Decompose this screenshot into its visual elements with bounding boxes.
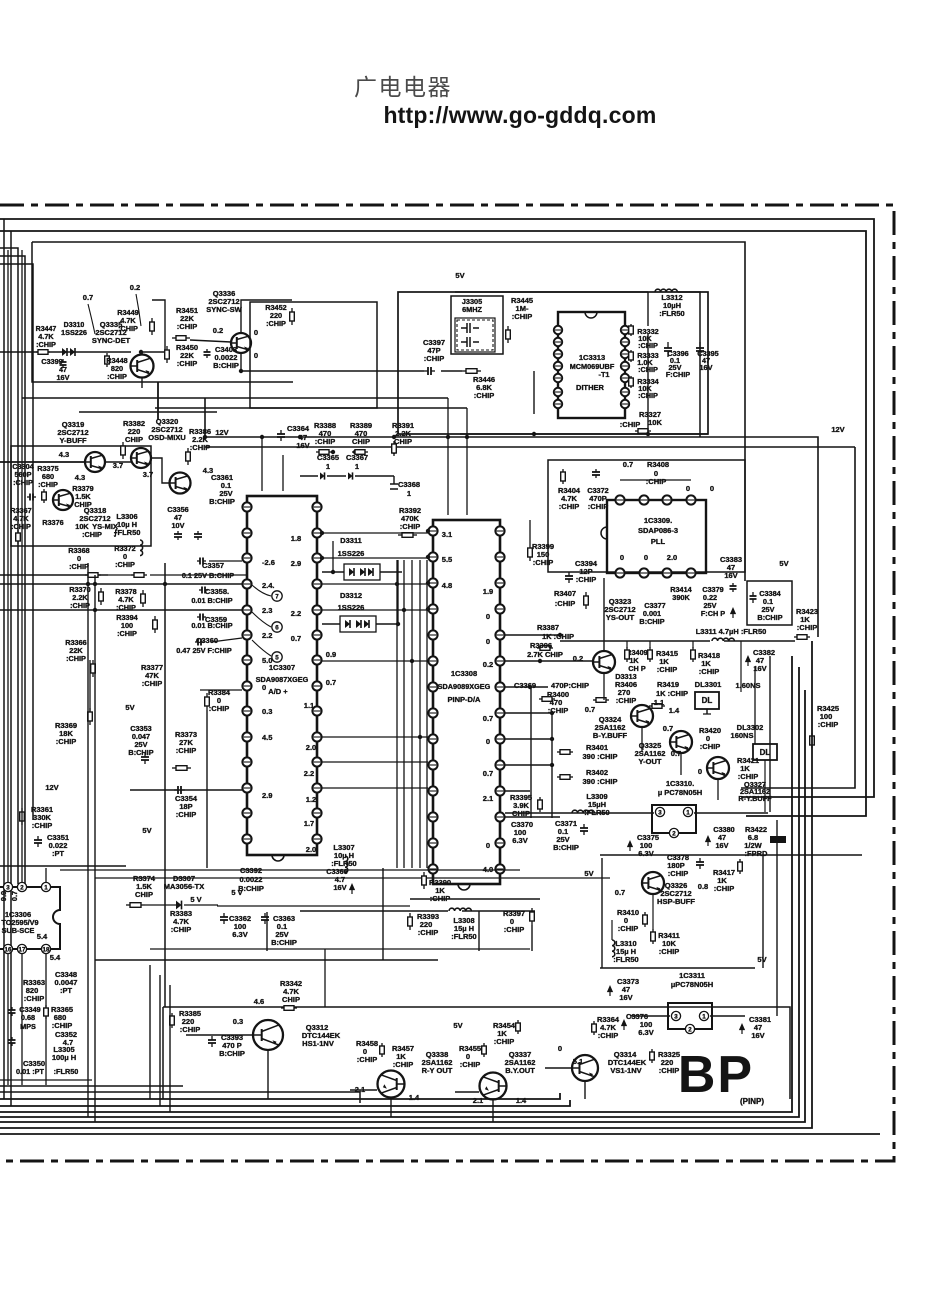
regulator IC3310 box	[652, 805, 696, 833]
capacitor C3350	[11, 1007, 13, 1010]
svg-text:1SS226: 1SS226	[338, 603, 365, 612]
svg-text:390 :CHIP: 390 :CHIP	[582, 777, 617, 786]
svg-text:0.2: 0.2	[213, 326, 223, 335]
wire ic3311 row	[630, 1015, 670, 1017]
svg-text::CHIP: :CHIP	[11, 522, 31, 531]
resistor R3401 body	[557, 751, 560, 753]
transistor Q3314	[572, 1055, 598, 1081]
wire long row 408	[155, 407, 467, 409]
svg-text:µPC78N05H: µPC78N05H	[671, 980, 713, 989]
svg-text:0: 0	[254, 351, 258, 360]
junction dots rail	[260, 435, 264, 439]
wire q3319 block row	[79, 411, 217, 413]
wire cap row	[300, 475, 318, 477]
capacitor C3304	[27, 496, 30, 498]
svg-text:0.7: 0.7	[83, 293, 93, 302]
wire L3311 rail	[560, 640, 710, 642]
svg-text:B.Y.OUT: B.Y.OUT	[505, 1066, 535, 1075]
svg-text::CHIP: :CHIP	[559, 502, 579, 511]
transistor Q3320 circle	[131, 448, 151, 468]
wire q3335 collector	[142, 300, 165, 354]
wire mid vertical x207	[206, 710, 208, 868]
svg-text:0.68: 0.68	[21, 1013, 35, 1022]
svg-text:9.9: 9.9	[0, 891, 8, 901]
wire bottom bus 7	[0, 1133, 880, 1135]
inductor L3308	[449, 908, 471, 911]
svg-text:2.3: 2.3	[262, 606, 272, 615]
wire long row 398	[22, 397, 448, 399]
svg-text:SDAP086-3: SDAP086-3	[638, 526, 678, 535]
svg-text:VS1-1NV: VS1-1NV	[610, 1066, 641, 1075]
svg-text:0.1 25V B:CHIP: 0.1 25V B:CHIP	[182, 571, 234, 580]
svg-text::CHIP: :CHIP	[797, 623, 817, 632]
svg-text:5.4: 5.4	[50, 953, 61, 962]
svg-text:2.2: 2.2	[262, 631, 272, 640]
wire left bundle v2	[10, 231, 12, 1106]
svg-text:0.7: 0.7	[483, 714, 493, 723]
svg-text:A/D +: A/D +	[268, 687, 288, 696]
svg-text:D3311: D3311	[340, 536, 362, 545]
svg-text:5 V: 5 V	[190, 895, 201, 904]
svg-text:C3360: C3360	[196, 636, 218, 645]
wire q3320 q3321	[151, 458, 169, 483]
resistor R3384 body	[206, 693, 208, 697]
wire mid vertical b	[94, 575, 96, 1122]
svg-text:-2.6: -2.6	[262, 558, 275, 567]
svg-text::CHIP: :CHIP	[659, 1066, 679, 1075]
svg-text:0: 0	[710, 484, 714, 493]
diode D3310	[62, 348, 67, 356]
svg-text:0.7: 0.7	[483, 769, 493, 778]
resistor R3382 body	[122, 442, 124, 446]
wire right vertical dl	[769, 656, 771, 812]
resistor R3410 body	[644, 912, 646, 915]
svg-text::CHIP: :CHIP	[38, 480, 58, 489]
svg-text::FLR50: :FLR50	[659, 309, 684, 318]
svg-text:0.0022: 0.0022	[240, 875, 263, 884]
wire pll outline	[548, 460, 745, 572]
svg-text:PINP-D/A: PINP-D/A	[448, 695, 482, 704]
resistor R3334	[630, 376, 632, 378]
svg-text:2: 2	[688, 1026, 692, 1033]
svg-text:1C3313: 1C3313	[579, 353, 605, 362]
svg-text::CHIP: :CHIP	[56, 737, 76, 746]
svg-text:3.1: 3.1	[442, 530, 452, 539]
svg-text:16V: 16V	[751, 1031, 764, 1040]
svg-text:100µ H: 100µ H	[52, 1053, 76, 1062]
IC3306 bottom pins	[3, 944, 12, 953]
svg-text:6MHZ: 6MHZ	[462, 305, 482, 314]
resistor R3369 body	[89, 708, 91, 712]
svg-text:16V: 16V	[296, 441, 309, 450]
svg-text:1: 1	[44, 884, 48, 891]
svg-text:HS1-1NV: HS1-1NV	[302, 1039, 334, 1048]
wire right vertical long	[741, 447, 855, 788]
wire left bundle v3	[0, 248, 18, 884]
resistor R3455 body	[483, 1043, 485, 1046]
wire hsp verticals	[762, 855, 764, 968]
svg-text:1: 1	[686, 809, 690, 816]
wire q3336 emitter row	[241, 370, 424, 372]
capacitor C3351	[37, 836, 39, 840]
resistor R3407 body	[585, 592, 587, 596]
transistor Q3323	[593, 651, 615, 673]
resistor R3378 body	[142, 590, 144, 594]
svg-text:5V: 5V	[125, 703, 134, 712]
svg-text::CHIP: :CHIP	[177, 322, 197, 331]
svg-text::CHIP: :CHIP	[69, 562, 89, 571]
resistor R3423 body	[794, 636, 797, 638]
svg-text::CHIP: :CHIP	[494, 1037, 514, 1046]
wire r3369 col	[89, 660, 91, 712]
svg-text:1.1: 1.1	[654, 698, 664, 707]
svg-text:0: 0	[486, 841, 490, 850]
capacitor C3349 body	[11, 1037, 13, 1040]
svg-text:2.7K CHIP: 2.7K CHIP	[527, 650, 563, 659]
wire 5V row hsp	[600, 967, 755, 969]
resistor R3332	[630, 324, 632, 326]
resistor R3415 body	[649, 647, 651, 650]
capacitor C3399	[62, 359, 64, 362]
svg-text:0.7: 0.7	[671, 749, 681, 758]
svg-text::CHIP: :CHIP	[512, 312, 532, 321]
resistor R3390 body	[423, 872, 425, 876]
svg-text:2.2: 2.2	[304, 769, 314, 778]
capacitor C3357	[197, 560, 200, 562]
svg-text:4.6: 4.6	[254, 997, 264, 1006]
wire left input luma	[0, 461, 84, 463]
svg-text::CHIP: :CHIP	[474, 391, 494, 400]
crystal symbol a	[461, 323, 479, 333]
svg-text:B:CHIP: B:CHIP	[128, 748, 153, 757]
svg-text:R3402: R3402	[586, 768, 608, 777]
wire right cluster verticals	[626, 641, 628, 648]
svg-text:0.3: 0.3	[233, 1017, 243, 1026]
inductor L3309	[572, 810, 594, 813]
op-amp U IC3307 body	[247, 496, 317, 855]
svg-text:1C3311: 1C3311	[679, 971, 705, 980]
svg-text:R3387: R3387	[537, 623, 559, 632]
resistor R3364 body	[593, 1021, 595, 1024]
resistor R3375	[43, 489, 45, 492]
svg-text:1.4: 1.4	[516, 1096, 527, 1105]
wire L3312 right	[678, 292, 700, 437]
svg-text:0.8: 0.8	[698, 882, 708, 891]
capacitor C3382	[746, 657, 750, 667]
capacitor C3354	[174, 789, 178, 791]
svg-text:1.60NS: 1.60NS	[735, 681, 760, 690]
wire r3384 box	[200, 689, 242, 691]
svg-text:17: 17	[19, 946, 26, 953]
capacitor C3395	[699, 342, 701, 348]
resistor R3449	[151, 318, 153, 322]
svg-text:B:CHIP: B:CHIP	[271, 938, 297, 947]
svg-text::CHIP: :CHIP	[393, 1060, 413, 1069]
svg-text:1.4: 1.4	[669, 706, 680, 715]
svg-text:2.1: 2.1	[473, 1096, 483, 1105]
svg-text:16V: 16V	[57, 373, 70, 382]
svg-text:CHIP: CHIP	[74, 500, 92, 509]
wire bottom corner stack b	[159, 975, 161, 1106]
resistor R3399 body	[529, 544, 531, 548]
wire q3323 collector	[603, 578, 605, 651]
svg-text:0: 0	[486, 637, 490, 646]
svg-text:5V: 5V	[757, 955, 766, 964]
op-amp U IC3308 body	[433, 520, 500, 884]
svg-text:MA3056-TX: MA3056-TX	[164, 882, 204, 891]
wire l3308 row	[300, 910, 448, 912]
capacitor C3368 mark	[390, 476, 398, 489]
IC3310 pin2	[669, 828, 678, 837]
wire q3335 emitter gnd	[141, 377, 143, 388]
svg-text::CHIP: :CHIP	[52, 1021, 72, 1030]
transistor Q3318	[53, 490, 73, 510]
svg-text::CHIP: :CHIP	[699, 667, 719, 676]
transistor Q3327	[707, 757, 729, 779]
svg-text:0: 0	[686, 484, 690, 493]
resistor R3389 body	[352, 451, 355, 453]
wire mid vertical a	[87, 563, 89, 1117]
capacitor C3363	[264, 913, 266, 917]
wire dither inner col	[533, 371, 535, 414]
svg-text:1: 1	[702, 1013, 706, 1020]
resistor R3361 body	[21, 808, 23, 812]
resistor R3395 body	[539, 797, 541, 800]
svg-text::CHIP: :CHIP	[13, 478, 33, 487]
resistor R3454 body	[517, 1020, 519, 1023]
wire ic3308 right rows	[505, 634, 560, 636]
svg-text:390 :CHIP: 390 :CHIP	[582, 752, 617, 761]
svg-text:1.8: 1.8	[291, 534, 301, 543]
resistor R3422 body	[770, 836, 786, 843]
svg-text:0: 0	[644, 553, 648, 562]
wire base q3336	[190, 340, 231, 342]
wire ic3306 pin cols up	[7, 250, 9, 882]
svg-text::CHIP: :CHIP	[714, 884, 734, 893]
capacitor C3360	[195, 641, 198, 643]
regulator IC3311 box	[668, 1003, 712, 1029]
svg-text:R-Y.BUFF: R-Y.BUFF	[738, 794, 772, 803]
svg-text:0.7: 0.7	[10, 891, 19, 901]
svg-text::CHIP: :CHIP	[115, 560, 135, 569]
svg-text:1: 1	[326, 462, 330, 471]
svg-text:http://www.go-gddq.com: http://www.go-gddq.com	[383, 102, 656, 128]
resistor R3368 body	[85, 574, 88, 576]
diode C3365 mark	[320, 472, 325, 479]
svg-text:16: 16	[5, 946, 12, 953]
svg-text:0.7: 0.7	[585, 705, 595, 714]
wire c3370 drop	[530, 687, 532, 818]
capacitor C3378	[699, 858, 701, 862]
op-amp U IC3313 body	[558, 312, 625, 418]
wire ybuff block box	[11, 446, 151, 546]
resistor R3409 body	[626, 647, 628, 650]
wire rows under ic	[0, 865, 126, 867]
resistor R3419 body	[649, 705, 652, 707]
svg-text:5.5: 5.5	[442, 555, 452, 564]
wire sync block box right	[250, 302, 377, 408]
svg-text::CHIP: :CHIP	[24, 994, 44, 1003]
crystal J3305 outer box	[451, 296, 503, 354]
svg-text:16V: 16V	[716, 841, 729, 850]
svg-text::CHIP: :CHIP	[171, 925, 191, 934]
IC3306 top pins	[3, 882, 12, 891]
svg-text::CHIP: :CHIP	[82, 530, 102, 539]
capacitor C3359	[197, 616, 200, 618]
wire dither bottom	[460, 433, 708, 435]
resistor R3391 body	[393, 441, 395, 444]
capacitor C3356b	[197, 531, 199, 534]
capacitor C3371	[583, 824, 585, 828]
wire q3336 emitter	[240, 353, 242, 371]
op-amp U IC3309 body	[607, 500, 706, 573]
capacitor C3366	[350, 885, 354, 895]
svg-text:CHIP: CHIP	[282, 995, 300, 1004]
IC3313 pins left	[554, 326, 562, 334]
IC3307 pins right	[312, 502, 321, 511]
svg-text:⨍FLR50: ⨍FLR50	[114, 528, 141, 537]
capacitor C3383 body	[732, 583, 734, 586]
svg-text:B:CHIP: B:CHIP	[213, 361, 239, 370]
svg-text:2.2: 2.2	[291, 609, 301, 618]
svg-text::CHIP: :CHIP	[66, 654, 86, 663]
svg-text:2.4.: 2.4.	[262, 581, 275, 590]
svg-text:5.4: 5.4	[37, 932, 48, 941]
resistor R3450	[166, 346, 168, 350]
svg-text::CHIP: :CHIP	[107, 372, 127, 381]
svg-text:Y-OUT: Y-OUT	[639, 757, 662, 766]
capacitor C3396	[667, 342, 669, 348]
svg-text:0.2: 0.2	[130, 283, 140, 292]
wire bottom corner stack c	[169, 985, 171, 1112]
svg-text:1.1: 1.1	[304, 701, 314, 710]
svg-text:C3357: C3357	[202, 561, 224, 570]
svg-text:1.7: 1.7	[304, 819, 314, 828]
capacitor C3403	[206, 349, 208, 352]
svg-text:1: 1	[355, 462, 359, 471]
svg-text:1C3308: 1C3308	[451, 669, 477, 678]
svg-text:6.3V: 6.3V	[232, 930, 247, 939]
capacitor C3353	[144, 753, 146, 757]
svg-text:0.01 B:CHIP: 0.01 B:CHIP	[191, 596, 232, 605]
wire row 575	[108, 574, 134, 576]
wire bottom bus 4	[0, 667, 799, 1117]
svg-text:DL: DL	[760, 748, 771, 757]
resistor R3367	[17, 530, 19, 533]
resistor R3333	[630, 350, 632, 352]
svg-text:C3369: C3369	[514, 681, 536, 690]
svg-text:DITHER: DITHER	[576, 383, 605, 392]
junction dots between ics	[395, 582, 399, 586]
svg-text::CHIP: :CHIP	[460, 1060, 480, 1069]
svg-text:0: 0	[486, 612, 490, 621]
IC3308 pins left	[428, 526, 437, 535]
svg-text::CHIP: :CHIP	[142, 679, 162, 688]
svg-text::CHIP: :CHIP	[504, 925, 524, 934]
svg-text:5V: 5V	[584, 869, 593, 878]
wire bottom bus 5	[0, 690, 805, 1122]
wire bottom bus 2	[0, 1100, 570, 1106]
svg-text:0: 0	[486, 737, 490, 746]
svg-text:12V: 12V	[831, 425, 844, 434]
svg-text:6.3V: 6.3V	[638, 849, 653, 858]
svg-text:470P:CHIP: 470P:CHIP	[551, 681, 589, 690]
callout 6	[272, 622, 282, 632]
wire dither 5V rail	[455, 291, 648, 293]
svg-text:Y-BUFF: Y-BUFF	[59, 436, 87, 445]
svg-text:0.3: 0.3	[262, 707, 272, 716]
svg-text::CHIP: :CHIP	[646, 477, 666, 486]
svg-text::CHIP: :CHIP	[576, 575, 596, 584]
wire l3308 drop	[478, 911, 480, 951]
svg-text::FLR50: :FLR50	[54, 1067, 79, 1076]
svg-text::FLR50: :FLR50	[451, 932, 476, 941]
wire bottom corner stack a	[149, 965, 151, 1099]
svg-text:C3399: C3399	[41, 357, 63, 366]
resistor R3445	[507, 326, 509, 330]
wire row 899	[410, 898, 540, 900]
svg-text:2: 2	[20, 884, 24, 891]
svg-text:C3364: C3364	[287, 424, 310, 433]
resistor R3411 body	[652, 929, 654, 932]
wire c3357 rows	[209, 560, 242, 562]
wire sync block box left	[32, 242, 293, 382]
wire left bundle v4	[0, 256, 25, 884]
transistor Q3337	[480, 1073, 507, 1100]
svg-text:6: 6	[275, 624, 279, 631]
resistor R3404 body	[562, 469, 564, 472]
svg-text:-T1: -T1	[599, 370, 610, 379]
svg-text:3.7: 3.7	[143, 470, 153, 479]
resistor R3397 body	[531, 908, 533, 912]
capacitor C3376	[622, 1021, 626, 1031]
op-amp U IC3306 body	[0, 887, 60, 949]
resistor R3366 body	[92, 660, 94, 664]
diode D3307	[176, 901, 182, 910]
resistor C3369 body	[593, 699, 596, 701]
svg-text:SYNC-SW: SYNC-SW	[206, 305, 242, 314]
svg-text:0.01 B:CHIP: 0.01 B:CHIP	[191, 621, 232, 630]
IC3309 bottom pins	[615, 568, 624, 577]
svg-text:16V: 16V	[619, 993, 632, 1002]
svg-text::CHIP: :CHIP	[176, 810, 196, 819]
svg-text:BP: BP	[678, 1046, 754, 1104]
IC3309 top pins	[615, 495, 624, 504]
svg-text:2.1: 2.1	[483, 794, 493, 803]
svg-text:1C3310.: 1C3310.	[666, 779, 694, 788]
svg-text::CHIP: :CHIP	[618, 924, 638, 933]
svg-text:2.9: 2.9	[291, 559, 301, 568]
wire vertical bus between ics	[396, 560, 398, 868]
wire bottom stubs	[390, 1098, 392, 1117]
svg-text::CHIP: :CHIP	[418, 928, 438, 937]
inductor L3311	[712, 638, 734, 641]
capacitor C3394	[568, 572, 570, 576]
svg-text:1C3307: 1C3307	[269, 663, 295, 672]
svg-text:5 V: 5 V	[231, 888, 242, 897]
wire hsp block left edge	[601, 858, 603, 968]
inductor L3307	[345, 856, 348, 873]
svg-text:C3358.: C3358.	[205, 587, 229, 596]
crystal symbol b	[461, 337, 479, 347]
svg-text::CHIP: :CHIP	[424, 354, 444, 363]
svg-text:B:CHIP: B:CHIP	[639, 617, 664, 626]
svg-text:390K: 390K	[672, 593, 690, 602]
transistor Q3338	[378, 1071, 405, 1098]
svg-text:R3376: R3376	[42, 518, 64, 527]
diode D3312 box	[340, 616, 376, 632]
wire sync row	[40, 351, 131, 353]
